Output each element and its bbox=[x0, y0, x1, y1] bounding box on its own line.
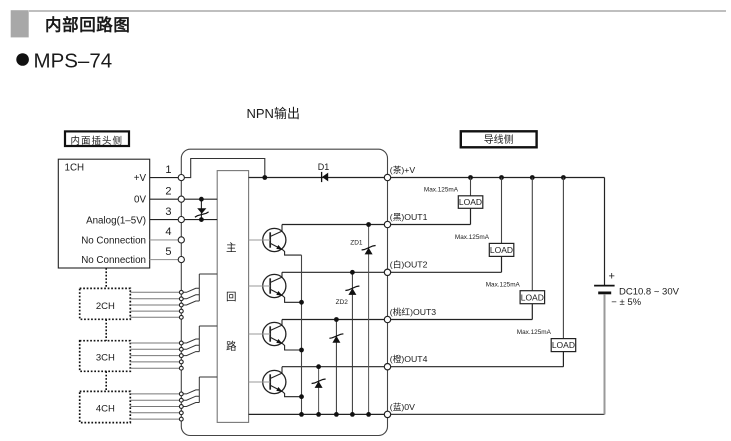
svg-text:+: + bbox=[609, 271, 615, 283]
svg-text:0V: 0V bbox=[134, 195, 146, 206]
svg-text:MPS–74: MPS–74 bbox=[34, 50, 113, 73]
svg-text:No Connection: No Connection bbox=[81, 235, 146, 246]
svg-text:4CH: 4CH bbox=[96, 404, 115, 415]
svg-text:LOAD: LOAD bbox=[521, 292, 544, 302]
svg-text:3CH: 3CH bbox=[96, 353, 115, 364]
svg-text:(白)OUT2: (白)OUT2 bbox=[390, 259, 428, 270]
svg-text:Max.125mA: Max.125mA bbox=[455, 234, 490, 241]
svg-text:路: 路 bbox=[226, 340, 237, 353]
svg-text:1CH: 1CH bbox=[65, 163, 85, 174]
svg-text:(黑)OUT1: (黑)OUT1 bbox=[390, 212, 428, 222]
svg-text:内面插头侧: 内面插头侧 bbox=[71, 135, 124, 147]
svg-text:回: 回 bbox=[226, 291, 237, 303]
svg-text:Analog(1–5V): Analog(1–5V) bbox=[86, 215, 146, 226]
svg-text:(橙)OUT4: (橙)OUT4 bbox=[390, 353, 428, 364]
svg-text:− ± 5%: − ± 5% bbox=[611, 297, 641, 308]
svg-text:导线侧: 导线侧 bbox=[484, 133, 514, 146]
svg-text:+V: +V bbox=[134, 173, 147, 184]
svg-text:4: 4 bbox=[165, 226, 171, 238]
svg-text:LOAD: LOAD bbox=[552, 340, 575, 350]
svg-text:内部回路图: 内部回路图 bbox=[45, 15, 131, 35]
svg-text:2CH: 2CH bbox=[96, 301, 115, 312]
svg-text:LOAD: LOAD bbox=[459, 197, 482, 207]
svg-text:NPN输出: NPN输出 bbox=[247, 106, 300, 121]
svg-text:5: 5 bbox=[165, 246, 171, 258]
svg-text:主: 主 bbox=[226, 242, 237, 254]
svg-text:3: 3 bbox=[165, 206, 171, 218]
svg-text:D1: D1 bbox=[318, 162, 330, 172]
svg-text:(茶)+V: (茶)+V bbox=[390, 164, 416, 175]
svg-text:1: 1 bbox=[165, 164, 171, 176]
svg-text:(蓝)0V: (蓝)0V bbox=[390, 401, 415, 412]
svg-text:Max.125mA: Max.125mA bbox=[424, 186, 459, 193]
svg-text:Max.125mA: Max.125mA bbox=[517, 329, 552, 336]
svg-text:LOAD: LOAD bbox=[490, 245, 513, 255]
svg-text:No Connection: No Connection bbox=[81, 255, 146, 266]
svg-text:(桃红)OUT3: (桃红)OUT3 bbox=[390, 306, 436, 317]
svg-text:2: 2 bbox=[165, 186, 171, 198]
svg-text:Max.125mA: Max.125mA bbox=[486, 281, 521, 288]
svg-text:ZD2: ZD2 bbox=[336, 299, 349, 306]
svg-text:ZD1: ZD1 bbox=[350, 240, 363, 247]
